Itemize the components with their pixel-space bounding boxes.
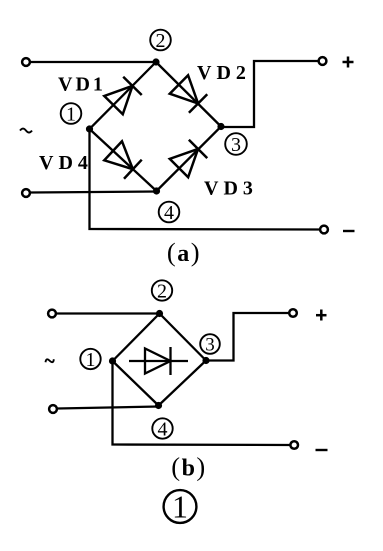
terminal b-top-right: [289, 309, 297, 317]
terminal b-top-left: [48, 310, 56, 318]
node 4 (a) junction dot: [153, 187, 160, 194]
node 3 (b) junction dot: [202, 357, 209, 364]
label circled 1 (a): [61, 103, 82, 125]
minus sign (a): [343, 230, 355, 232]
node 4 (b) junction dot: [155, 402, 162, 409]
svg-text:VD4: VD4: [39, 152, 93, 174]
svg-text:3: 3: [231, 134, 241, 156]
node 2 (a) junction dot: [152, 58, 159, 65]
wire b: diamond edge node1-node4: [113, 361, 159, 406]
diode VD2 symbol (anode node2, cathode node3): [170, 75, 207, 112]
terminal a-top-right: [319, 57, 327, 65]
wire b: diamond edge node4-node3: [159, 361, 207, 406]
AC tilde (b): [45, 357, 55, 364]
bridge inner diode lead wire: [129, 360, 188, 362]
wire b: bottom-left terminal to node 4: [58, 407, 159, 409]
terminal a-bottom-left: [22, 189, 30, 197]
svg-text:3: 3: [205, 334, 215, 355]
wire b: node1 down and bottom rail to minus terminal: [113, 361, 291, 445]
node 3 (a) junction dot: [217, 123, 224, 130]
svg-text:4: 4: [164, 202, 174, 224]
wire a: diamond edge node1-node2: [90, 62, 157, 129]
bridge inner diode symbol: [145, 347, 171, 375]
wire a: bottom-left terminal to node 4: [31, 192, 157, 193]
minus sign (b): [316, 449, 328, 451]
wire a: diamond edge node4-node3: [157, 127, 222, 192]
svg-text:2: 2: [156, 30, 166, 52]
diode VD3 symbol (anode node4, cathode node3): [170, 140, 207, 177]
label circled 4 (a): [159, 202, 180, 224]
plus sign (b): [316, 310, 327, 321]
AC tilde (a): [20, 129, 32, 133]
terminal a-top-left: [22, 58, 30, 66]
wire a: node1 down and bottom rail to minus terminal: [90, 129, 321, 230]
wire b: diamond edge node2-node3: [160, 314, 207, 361]
svg-text:VD2: VD2: [197, 62, 251, 84]
terminal a-bottom-right: [320, 226, 328, 234]
svg-text:1: 1: [66, 103, 76, 125]
svg-text:VD1: VD1: [58, 74, 106, 96]
diode VD1 symbol (anode node1, cathode node2): [104, 77, 141, 114]
label circled 4 (b): [152, 418, 172, 440]
svg-text:(b): (b): [171, 452, 207, 482]
svg-text:2: 2: [157, 280, 167, 302]
wire a: diamond edge node1-node4: [90, 129, 157, 191]
svg-text:1: 1: [86, 349, 96, 371]
diode VD4 symbol (anode node1, cathode node4): [104, 141, 141, 178]
wire a: diamond edge node2-node3: [156, 62, 221, 127]
label circled 2 (b): [152, 280, 172, 302]
terminal b-bottom-right: [290, 441, 298, 449]
node 2 (b) junction dot: [156, 310, 163, 317]
label circled 3 (a): [225, 133, 247, 156]
terminal b-bottom-left: [49, 405, 57, 413]
svg-text:1: 1: [172, 489, 188, 525]
plus sign (a): [343, 57, 354, 68]
svg-text:4: 4: [158, 418, 168, 440]
svg-text:VD3: VD3: [204, 178, 258, 200]
wire b: diamond edge node1-node2: [113, 314, 160, 362]
wire a: top-left terminal to node 2: [31, 61, 157, 63]
label circled 2 (a): [150, 30, 171, 52]
node 1 (a) junction dot: [86, 125, 93, 132]
wire a: node3 to right corner: [221, 61, 319, 127]
node 1 (b) junction dot: [109, 357, 116, 364]
wire b: node3 to right corner: [206, 313, 289, 361]
svg-text:(a): (a): [167, 237, 201, 267]
label circled 1 (b): [80, 349, 100, 371]
wire b: top-left terminal to node 2: [57, 312, 160, 314]
figure number circled 1: [164, 489, 197, 525]
label circled 3 (b): [200, 334, 220, 355]
